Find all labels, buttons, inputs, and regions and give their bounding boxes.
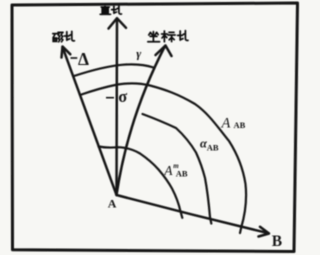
arrowhead true north bbox=[109, 18, 127, 28]
svg-text:AB: AB bbox=[207, 143, 219, 153]
arc middle grid azimuth alpha_AB bbox=[143, 114, 212, 224]
arrowhead B bbox=[259, 227, 270, 237]
wire grid north line bbox=[117, 46, 166, 195]
label ci-bei (magnetic north) char ci bbox=[53, 32, 63, 41]
label zuo-biao-bei (grid north) char bei bbox=[178, 31, 188, 41]
wire magnetic north line bbox=[63, 47, 117, 195]
arrowhead grid north bbox=[156, 46, 172, 57]
arc declination delta-gamma bbox=[74, 64, 154, 76]
svg-text:AB: AB bbox=[234, 120, 246, 130]
svg-text:A: A bbox=[108, 197, 117, 211]
arc inner magnetic azimuth Am_AB bbox=[99, 147, 183, 218]
svg-text:A: A bbox=[221, 116, 231, 132]
svg-text:σ: σ bbox=[118, 87, 127, 106]
label minus-sigma bbox=[106, 97, 114, 99]
label minus-delta (declination) bbox=[71, 57, 78, 59]
arc sigma continuing as outer azimuth arc A_AB bbox=[80, 83, 246, 233]
label zhen-bei (true north) char zhen bbox=[100, 6, 110, 15]
label zuo-biao-bei (grid north) char biao bbox=[162, 31, 176, 42]
wire line A to B bbox=[117, 195, 269, 233]
wire true north line bbox=[115, 19, 118, 195]
svg-text:Δ: Δ bbox=[78, 49, 89, 69]
label zuo-biao-bei (grid north) char zuo bbox=[148, 32, 160, 42]
arrowhead magnetic north bbox=[62, 47, 71, 58]
svg-text:γ: γ bbox=[136, 47, 141, 61]
svg-text:A: A bbox=[163, 163, 173, 178]
svg-text:AB: AB bbox=[176, 169, 188, 179]
label ci-bei (magnetic north) char bei bbox=[64, 31, 74, 40]
svg-text:B: B bbox=[272, 233, 282, 250]
label zhen-bei (true north) char bei bbox=[112, 5, 122, 14]
